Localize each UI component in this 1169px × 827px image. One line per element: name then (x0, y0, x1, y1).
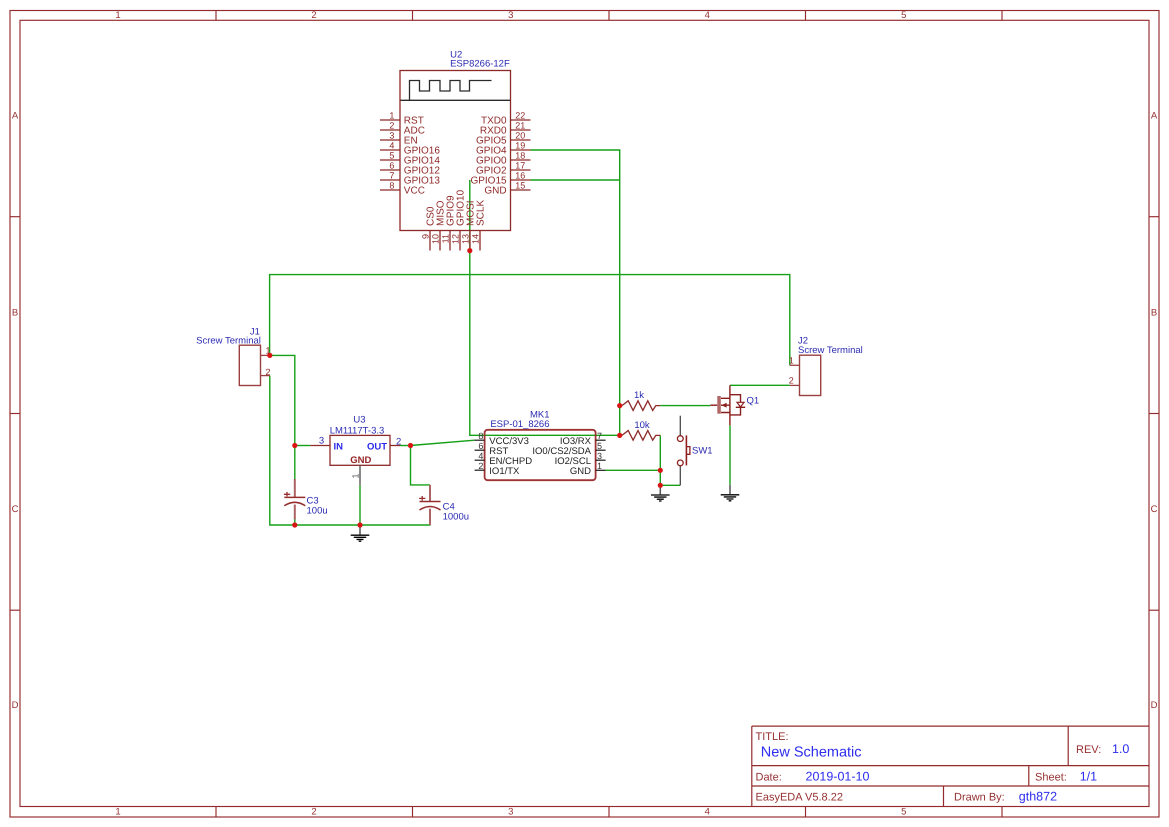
svg-text:3: 3 (508, 10, 513, 21)
wire GPIO4 to resistor column (531, 150, 620, 406)
svg-text:5: 5 (597, 441, 602, 451)
junction dot U3 ground (357, 522, 362, 527)
svg-text:14: 14 (470, 234, 480, 244)
wire OUT node to MK1 VCC (diagonal) (411, 440, 475, 445)
svg-text:OUT: OUT (367, 441, 387, 452)
svg-text:7: 7 (389, 170, 394, 180)
junction dot C3 ground (292, 522, 297, 527)
U3 pin 1 GND (351, 465, 361, 485)
svg-text:1: 1 (597, 461, 602, 471)
wire U3 GND to ground rail (359, 485, 361, 525)
wire net VCC top rail (270, 275, 790, 366)
U2 pin 10 MISO (430, 200, 446, 250)
wire between 1k and 10k nodes (619, 406, 621, 436)
resistor R 10k (620, 420, 661, 440)
svg-text:16: 16 (515, 170, 525, 180)
U2 pin 4 GPIO16 (380, 140, 440, 156)
svg-text:ESP-01_8266: ESP-01_8266 (490, 419, 549, 430)
wire C3 bottom stub (294, 520, 296, 526)
MK1 pin 5 IO0/CS2/SDA (532, 441, 605, 457)
junction dot input node (292, 443, 297, 448)
pushbutton SW1 (677, 416, 712, 486)
MK1 pin 7 IO3/RX (560, 431, 606, 447)
svg-text:6: 6 (478, 441, 483, 451)
ground symbol at Q1 source (721, 485, 740, 501)
svg-text:8: 8 (478, 431, 483, 441)
junction dot 1k node (617, 403, 622, 408)
svg-text:LM1117T-3.3: LM1117T-3.3 (330, 426, 385, 437)
svg-text:22: 22 (515, 110, 525, 120)
U2 pin 15 GND (484, 180, 530, 196)
svg-text:13: 13 (460, 234, 470, 244)
J1 pin 2 (261, 367, 271, 377)
svg-text:7: 7 (597, 431, 602, 441)
MK1 pin 1 GND (570, 461, 606, 477)
J1 pin 1 (261, 345, 271, 355)
svg-text:2019-01-10: 2019-01-10 (806, 769, 870, 783)
svg-text:1: 1 (115, 807, 120, 818)
U2 pin 1 RST (380, 110, 424, 126)
svg-text:A: A (1151, 111, 1158, 122)
U2 pin 17 GPIO2 (476, 160, 530, 176)
svg-text:SW1: SW1 (692, 446, 713, 457)
svg-text:2: 2 (789, 375, 794, 385)
svg-text:Sheet:: Sheet: (1035, 771, 1067, 783)
svg-text:5: 5 (389, 150, 394, 160)
svg-text:EasyEDA V5.8.22: EasyEDA V5.8.22 (756, 791, 843, 803)
title block (752, 726, 1149, 806)
regulator U3 LM1117T-3.3 (330, 414, 390, 466)
MK1 pin 6 RST (475, 441, 509, 457)
svg-text:1: 1 (389, 110, 394, 120)
svg-text:9: 9 (420, 234, 430, 239)
junction dot OUT node (408, 443, 413, 448)
U2 pin 16 GPIO15 (470, 170, 530, 186)
svg-text:11: 11 (440, 234, 450, 243)
U2 pin 7 GPIO13 (380, 170, 440, 186)
capacitor C3 100u (284, 479, 328, 520)
junction dot MK1 GND node (658, 468, 663, 473)
module MK1 ESP-01_8266 body (485, 409, 596, 480)
svg-text:18: 18 (515, 150, 525, 160)
svg-text:New Schematic: New Schematic (761, 744, 862, 760)
svg-text:1: 1 (351, 473, 361, 478)
svg-text:19: 19 (515, 140, 525, 150)
svg-text:Q1: Q1 (747, 395, 760, 406)
svg-text:17: 17 (515, 160, 525, 170)
U2 pin 8 VCC (380, 180, 425, 196)
svg-text:20: 20 (515, 130, 525, 140)
svg-text:IO1/TX: IO1/TX (489, 466, 520, 477)
U2 pin 5 GPIO14 (380, 150, 440, 166)
svg-text:GND: GND (350, 455, 371, 466)
wire J1 pin1 to regulator input node (270, 355, 295, 445)
svg-text:GND: GND (570, 466, 591, 477)
svg-text:5: 5 (901, 807, 906, 818)
U2 pin 3 EN (380, 130, 418, 146)
wire input node to U3 IN (295, 445, 311, 447)
wire J1 pin2 to ground rail (270, 376, 431, 525)
svg-text:1: 1 (789, 355, 794, 365)
svg-text:B: B (1151, 307, 1157, 318)
svg-text:12: 12 (450, 234, 460, 244)
svg-text:8: 8 (389, 180, 394, 190)
U2 pin 20 GPIO5 (476, 130, 530, 146)
U3 pin 2 OUT (390, 436, 401, 447)
ground symbol at U3 (351, 525, 370, 541)
U2 pin 9 CS0 (420, 206, 436, 250)
svg-text:1.0: 1.0 (1112, 742, 1129, 756)
svg-text:10: 10 (430, 234, 440, 244)
wire Q1 source down (729, 425, 731, 485)
svg-text:Screw Terminal: Screw Terminal (196, 336, 261, 347)
svg-text:C: C (1151, 504, 1158, 515)
junction dot SW1 ground node (658, 483, 663, 488)
junction dot J1 pin1 node (267, 353, 272, 358)
U2 pin 18 GPIO0 (476, 150, 530, 166)
wire input node down to C3 (294, 446, 296, 480)
svg-text:C: C (12, 504, 19, 515)
svg-text:TITLE:: TITLE: (756, 731, 789, 743)
wire node to SW1 lower pin (660, 484, 680, 486)
svg-text:2: 2 (311, 10, 316, 21)
wire GPIO15 stub (531, 179, 620, 181)
svg-text:21: 21 (515, 120, 525, 130)
IC U2 ESP8266-12F body (400, 50, 511, 231)
svg-text:10k: 10k (634, 420, 650, 431)
svg-text:U3: U3 (353, 414, 365, 425)
svg-text:1k: 1k (634, 390, 644, 401)
svg-text:4: 4 (478, 451, 483, 461)
wire MK1 GND to node (606, 469, 661, 471)
U3 pin 3 IN (310, 436, 330, 447)
svg-text:3: 3 (319, 436, 324, 447)
wire Q1 drain to J2 pin2 (730, 384, 790, 386)
svg-text:3: 3 (597, 451, 602, 461)
svg-text:2: 2 (478, 461, 483, 471)
svg-text:1/1: 1/1 (1080, 769, 1097, 783)
svg-text:IN: IN (334, 441, 344, 452)
J2 pin 2 (789, 375, 800, 385)
U2 pin 21 RXD0 (480, 120, 531, 136)
MOSFET Q1 (710, 385, 759, 425)
svg-text:4: 4 (705, 807, 710, 818)
svg-text:3: 3 (508, 807, 513, 818)
svg-text:2: 2 (265, 367, 270, 377)
svg-text:1000u: 1000u (443, 512, 469, 523)
resistor R 1k (620, 390, 661, 411)
svg-text:Screw Terminal: Screw Terminal (798, 345, 863, 356)
MK1 pin 4 EN/CHPD (475, 451, 533, 467)
MK1 pin 2 IO1/TX (475, 461, 520, 477)
svg-text:1: 1 (115, 10, 120, 21)
junction dot MOSI pin (467, 248, 472, 253)
U2 pin 11 GPIO9 (440, 195, 456, 251)
U2 pin 2 ADC (380, 120, 425, 136)
U2 pin 6 GPIO12 (380, 160, 440, 176)
svg-text:REV:: REV: (1076, 744, 1101, 756)
svg-text:SCLK: SCLK (475, 200, 486, 226)
svg-text:5: 5 (901, 10, 906, 21)
U2 pin 22 TXD0 (481, 110, 530, 126)
ground symbol at SW1 (651, 485, 670, 501)
connector J1 Screw Terminal (196, 327, 261, 386)
J2 pin 1 (789, 355, 800, 365)
svg-text:2: 2 (311, 807, 316, 818)
svg-text:4: 4 (705, 10, 710, 21)
svg-text:A: A (12, 111, 19, 122)
wire OUT node down to C4 (411, 446, 431, 485)
svg-text:15: 15 (515, 180, 525, 190)
U2 pin 19 GPIO4 (476, 140, 530, 156)
MK1 pin 3 IO2/SCL (555, 451, 606, 467)
capacitor C4 1000u (419, 485, 469, 525)
wire U3 OUT node (400, 445, 411, 447)
wire 10k down to switch node (659, 435, 661, 485)
svg-text:D: D (1151, 700, 1158, 711)
svg-text:2: 2 (389, 120, 394, 130)
wire MOSI vertical (470, 180, 620, 435)
MK1 pin 8 VCC/3V3 (475, 431, 529, 447)
svg-text:gth872: gth872 (1019, 789, 1057, 803)
wire 1k to Q1 gate (660, 405, 710, 407)
svg-text:Drawn By:: Drawn By: (954, 791, 1005, 803)
svg-text:4: 4 (389, 140, 394, 150)
svg-text:D: D (12, 700, 19, 711)
U2 antenna meander (401, 81, 511, 101)
U2 pin 13 MOSI (460, 200, 476, 250)
svg-text:6: 6 (389, 160, 394, 170)
connector J2 Screw Terminal (798, 335, 863, 395)
svg-text:B: B (12, 307, 18, 318)
svg-text:ESP8266-12F: ESP8266-12F (450, 59, 510, 70)
svg-text:2: 2 (396, 436, 401, 447)
U2 pin 14 SCLK (470, 200, 486, 251)
svg-text:Date:: Date: (756, 771, 782, 783)
svg-text:100u: 100u (307, 505, 328, 516)
svg-text:GND: GND (484, 186, 506, 197)
U2 pin 12 GPIO10 (450, 189, 466, 250)
svg-text:VCC: VCC (404, 186, 425, 197)
svg-text:3: 3 (389, 130, 394, 140)
junction dot 10k node (617, 433, 622, 438)
